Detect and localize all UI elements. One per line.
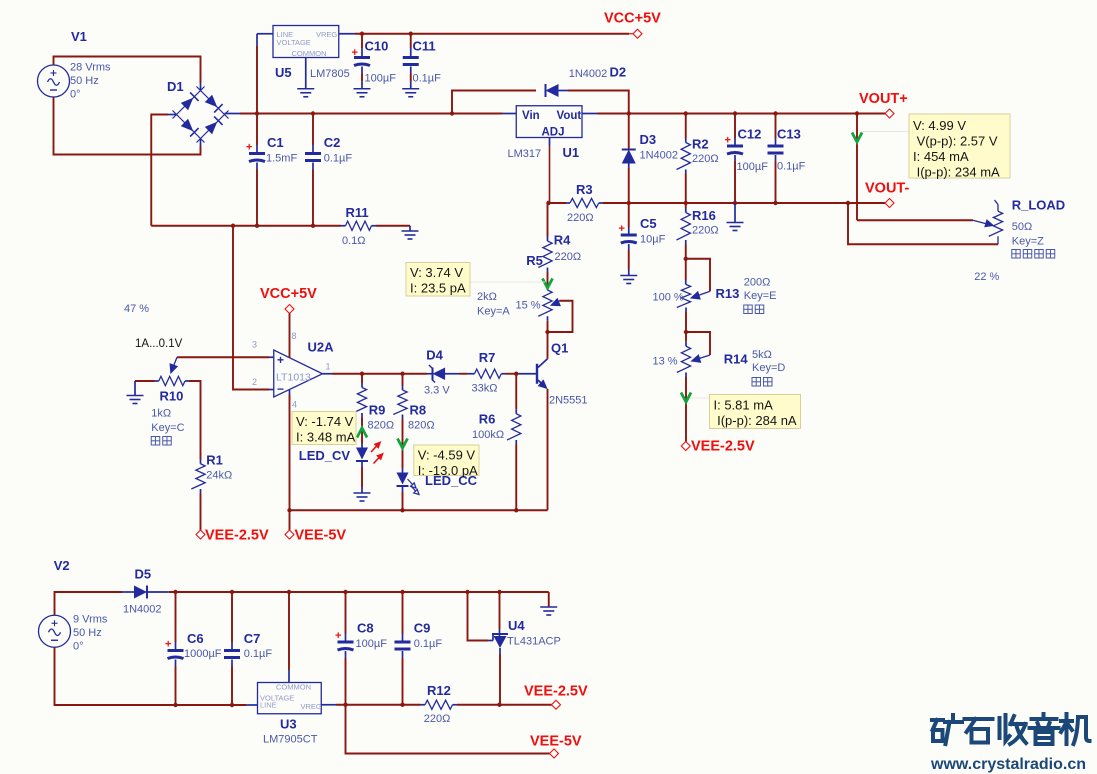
svg-text:U3: U3 (280, 717, 297, 732)
svg-text:V(p-p): 2.57 V: V(p-p): 2.57 V (913, 134, 998, 149)
svg-text:C13: C13 (777, 127, 801, 142)
junction C13 bottom (773, 201, 777, 205)
junction C10 top (360, 32, 364, 36)
svg-text:V: 4.99 V: V: 4.99 V (913, 118, 966, 133)
svg-text:0°: 0° (73, 641, 84, 653)
svg-text:1000µF: 1000µF (184, 648, 222, 660)
svg-text:13 %: 13 % (653, 356, 678, 368)
capacitor C6 (175, 642, 177, 649)
label R10 电流 (151, 437, 160, 446)
svg-text:R12: R12 (427, 683, 451, 698)
net connector VEE-2.5V (R12) (552, 700, 561, 709)
svg-text:R8: R8 (410, 403, 427, 418)
svg-text:V: -4.59 V: V: -4.59 V (418, 448, 476, 463)
svg-text:C7: C7 (244, 631, 261, 646)
svg-text:TL431ACP: TL431ACP (507, 636, 561, 648)
svg-text:VCC+5V: VCC+5V (260, 286, 317, 302)
svg-text:LM7905CT: LM7905CT (263, 734, 318, 746)
svg-text:3.3 V: 3.3 V (424, 385, 450, 397)
callout line to measurement box (861, 131, 909, 133)
svg-text:+: + (725, 135, 731, 147)
junction C8 top (343, 590, 347, 594)
junction C6 top (173, 590, 177, 594)
wire bridge right corner to main rail (225, 113, 241, 115)
junction R9 top (360, 372, 364, 376)
diode bridge D1 (173, 87, 229, 143)
ADJ/VOUT- rail (550, 202, 567, 204)
svg-text:R2: R2 (692, 137, 709, 152)
svg-text:−: − (277, 382, 284, 396)
svg-text:I: -13.0 pA: I: -13.0 pA (418, 463, 478, 478)
svg-text:LM317: LM317 (508, 148, 542, 160)
svg-text:VREG: VREG (316, 30, 337, 39)
ground R11 (409, 226, 411, 231)
junction VOUT+ load branch (855, 111, 859, 115)
resistor R7 (475, 369, 502, 378)
ground LED_CV (354, 493, 371, 501)
junction R8 top (400, 372, 404, 376)
svg-text:50 Hz: 50 Hz (73, 627, 102, 639)
negative rail VEE-5V (290, 509, 548, 511)
svg-text:9 Vrms: 9 Vrms (73, 614, 108, 626)
regulator U1 LM317 box (516, 106, 582, 138)
capacitor C11 (410, 48, 412, 56)
potentiometer R10 (159, 376, 185, 385)
capacitor C2 (312, 145, 314, 152)
junction C12 top (733, 111, 737, 115)
svg-text:2N5551: 2N5551 (549, 395, 588, 407)
svg-text:+: + (277, 353, 284, 367)
junction ADJ R3 R4 (546, 201, 550, 205)
svg-text:2kΩ: 2kΩ (477, 291, 497, 303)
junction bridge rail / U5 / C1 (255, 111, 259, 115)
svg-text:U2A: U2A (308, 340, 335, 355)
svg-text:R7: R7 (479, 350, 496, 365)
svg-text:0°: 0° (70, 89, 81, 101)
svg-text:1.5mF: 1.5mF (266, 153, 297, 165)
svg-text:R3: R3 (576, 182, 593, 197)
resistor R3 (570, 198, 599, 207)
junction R13/R14 (684, 330, 688, 334)
svg-text:VOUT-: VOUT- (865, 181, 909, 197)
capacitor C13 (775, 139, 777, 145)
svg-text:ADJ: ADJ (542, 127, 565, 139)
LED_CV emission arrows (371, 442, 383, 464)
junction U4 ref branch (465, 590, 469, 594)
svg-text:I: 454 mA: I: 454 mA (913, 149, 969, 164)
watermark 矿石收音机 www.crystalradio.cn (932, 714, 1090, 744)
V2 bottom rail (55, 648, 247, 706)
svg-text:3: 3 (252, 340, 257, 350)
svg-text:50Ω: 50Ω (1012, 221, 1032, 233)
capacitor C9 (402, 634, 404, 641)
svg-text:1kΩ: 1kΩ (151, 408, 171, 420)
svg-text:VEE-2.5V: VEE-2.5V (691, 439, 755, 455)
svg-text:VEE-5V: VEE-5V (295, 528, 347, 544)
svg-text:V1: V1 (71, 29, 87, 44)
svg-text:VEE-2.5V: VEE-2.5V (205, 528, 269, 544)
svg-text:U5: U5 (275, 65, 292, 80)
svg-text:Vin: Vin (522, 110, 540, 122)
svg-text:Key=A: Key=A (477, 306, 510, 318)
potentiometer R13 (685, 280, 687, 285)
svg-text:220Ω: 220Ω (692, 225, 719, 237)
svg-text:R4: R4 (554, 233, 571, 248)
wire R10 wiper to op-amp plus input (177, 356, 269, 358)
capacitor C5 (628, 228, 630, 234)
junction D2 branch (450, 111, 454, 115)
svg-text:0.1µF: 0.1µF (777, 161, 806, 173)
svg-text:820Ω: 820Ω (368, 420, 395, 432)
svg-text:R_LOAD: R_LOAD (1012, 198, 1065, 213)
svg-text:1N4002: 1N4002 (640, 150, 679, 162)
resistor R12 (421, 704, 426, 706)
net connector VEE-2.5V (R1) (196, 530, 205, 539)
U3 COMMON pin wire (288, 670, 290, 683)
net connector VOUT- (885, 199, 894, 208)
VEE-5V bottom wire (346, 705, 550, 754)
svg-text:8: 8 (292, 331, 297, 341)
ground V2 rail (540, 607, 557, 615)
junction C8 bottom (400, 703, 404, 707)
svg-text:R9: R9 (369, 403, 386, 418)
svg-text:LED_CV: LED_CV (299, 448, 351, 463)
net connector VEE-5V (285, 530, 294, 539)
ground U5 (297, 89, 314, 97)
lower rail (bridge minus) (151, 225, 341, 227)
junction U4 anode / R12 (497, 703, 501, 707)
resistor R1 (191, 464, 205, 489)
svg-text:220Ω: 220Ω (555, 251, 582, 263)
svg-text:R5: R5 (526, 253, 543, 268)
svg-text:50 Hz: 50 Hz (70, 75, 99, 87)
R10 wiper arrow (172, 357, 177, 369)
svg-text:C2: C2 (324, 135, 341, 150)
junction VEE-5V branch (343, 703, 347, 707)
junction U4 cathode (497, 590, 501, 594)
svg-text:0.1µF: 0.1µF (414, 638, 443, 650)
svg-text:Q1: Q1 (551, 341, 568, 356)
svg-text:COMMON: COMMON (292, 49, 327, 58)
callout line to box (690, 397, 710, 399)
svg-text:10µF: 10µF (640, 234, 666, 246)
junction U3 COMMON (287, 590, 291, 594)
svg-text:+: + (619, 223, 625, 235)
ground C10 (354, 89, 371, 97)
svg-text:COMMON: COMMON (276, 683, 311, 692)
junction D2/D3 (627, 111, 631, 115)
main top rail (bridge output to U1 Vin) (257, 113, 503, 115)
svg-text:LM7805: LM7805 (310, 68, 350, 80)
svg-text:4: 4 (292, 400, 297, 410)
net connector VCC+5V op-amp (285, 305, 294, 314)
measurement box VOUT (909, 114, 1010, 178)
svg-text:200Ω: 200Ω (744, 277, 771, 289)
svg-text:Key=D: Key=D (752, 362, 785, 374)
svg-text:VOLTAGE: VOLTAGE (277, 38, 311, 47)
capacitor C7 (231, 642, 233, 649)
measurement box V3.74 (406, 263, 470, 297)
svg-text:1A...0.1V: 1A...0.1V (135, 338, 183, 350)
svg-text:D1: D1 (167, 79, 184, 94)
AC source V2 (39, 615, 71, 647)
junction R2 top (684, 111, 688, 115)
LED LED_CV (356, 448, 368, 460)
svg-text:28 Vrms: 28 Vrms (70, 62, 111, 74)
svg-text:220Ω: 220Ω (567, 212, 594, 224)
resistor R6 (515, 409, 517, 414)
net connector VEE-2.5V (R14) (681, 442, 690, 451)
svg-text:LT1013: LT1013 (276, 372, 311, 384)
junction C6 bottom (173, 703, 177, 707)
junction C9 top (400, 590, 404, 594)
svg-text:C8: C8 (357, 621, 374, 636)
svg-text:VEE-2.5V: VEE-2.5V (524, 684, 588, 700)
U3 VREG wire (321, 704, 336, 706)
svg-text:R6: R6 (479, 412, 496, 427)
svg-text:2: 2 (252, 377, 257, 387)
svg-text:100µF: 100µF (737, 161, 769, 173)
junction R16/R13 (684, 257, 688, 261)
svg-text:15 %: 15 % (516, 300, 541, 312)
svg-text:1N4002: 1N4002 (123, 604, 162, 616)
svg-text:Key=C: Key=C (151, 422, 184, 434)
wire VOUT- to R_LOAD bottom (848, 203, 998, 244)
junction LED_CC bottom (400, 508, 404, 512)
wire R10 right to R1 (189, 381, 201, 460)
junction VOUT- load branch (846, 201, 850, 205)
junction Q1 base / R6 (514, 372, 518, 376)
svg-text:VCC+5V: VCC+5V (604, 11, 661, 27)
U5 COMMON pin to ground (305, 58, 307, 89)
ground C11 (402, 89, 419, 97)
diode D2 1N4002 (452, 91, 536, 114)
op-amp pin 8 wire (289, 314, 291, 358)
svg-text:1: 1 (326, 362, 331, 372)
junction C1 bottom (255, 224, 259, 228)
net connector VOUT+ (885, 109, 894, 118)
ground C5 (620, 276, 637, 284)
junction C11 top (409, 32, 413, 36)
svg-text:0.1µF: 0.1µF (244, 648, 273, 660)
wire U5 VREG to VCC+5V (339, 33, 355, 35)
svg-text:C12: C12 (738, 127, 762, 142)
svg-text:R16: R16 (692, 208, 716, 223)
svg-text:100µF: 100µF (365, 73, 397, 85)
svg-text:I: 3.48 mA: I: 3.48 mA (296, 430, 356, 445)
svg-text:C10: C10 (365, 39, 389, 54)
measurement box I 5.81mA (710, 395, 801, 429)
diode D3 1N4002 (628, 114, 630, 149)
label R13 细调 (744, 305, 753, 314)
transistor Q1 2N5551 (547, 332, 549, 359)
svg-text:V: 3.74 V: V: 3.74 V (410, 265, 463, 280)
svg-text:VEE-5V: VEE-5V (530, 734, 582, 750)
U4 reference wire (468, 592, 489, 641)
junction C7 top (230, 590, 234, 594)
wire U1 Vout to VOUT+ rail (582, 113, 598, 115)
junction R16 top (684, 201, 688, 205)
svg-text:R10: R10 (160, 389, 184, 404)
zener diode D4 (433, 367, 446, 380)
svg-text:VOUT+: VOUT+ (859, 91, 908, 107)
capacitor C10 (361, 48, 363, 56)
potentiometer R_LOAD (995, 200, 999, 205)
junction C5 top (627, 201, 631, 205)
potentiometer R14 (685, 342, 687, 347)
svg-text:+: + (335, 630, 341, 642)
junction C7 bottom (230, 703, 234, 707)
svg-text:D5: D5 (135, 567, 152, 582)
op-amp output wire (323, 373, 333, 375)
svg-text:D3: D3 (640, 132, 657, 147)
junction C12 bottom / ground (733, 201, 737, 205)
svg-text:D2: D2 (610, 65, 627, 80)
ground at C12/C13 rail (734, 203, 736, 223)
ground R10 (127, 396, 144, 404)
voltage regulator U5 box (273, 26, 339, 58)
wire V1 bottom to bridge bottom (54, 97, 201, 155)
op-amp pin 4 wire to VEE-5V (289, 390, 291, 395)
svg-text:0.1Ω: 0.1Ω (342, 235, 366, 247)
svg-text:+: + (246, 142, 252, 154)
svg-text:I(p-p): 284 nA: I(p-p): 284 nA (714, 413, 797, 428)
capacitor C8 (345, 634, 347, 641)
junction VCC sense branch (231, 224, 235, 228)
label R14 粗调 (752, 378, 761, 387)
svg-text:+: + (352, 47, 358, 59)
green probe arrow VOUT+ (856, 114, 858, 221)
svg-text:U1: U1 (563, 145, 580, 160)
svg-text:47 %: 47 % (124, 303, 149, 315)
R5 wiper arrow (554, 301, 560, 304)
R13 wiper arrow (694, 291, 710, 297)
capacitor C12 (734, 139, 736, 145)
svg-text:Key=E: Key=E (744, 290, 777, 302)
wire bridge left corner down to lower rail (168, 114, 177, 116)
svg-text:R11: R11 (346, 205, 369, 220)
svg-text:C9: C9 (414, 621, 431, 636)
Q1 base wire (516, 373, 536, 375)
wire minus rail sense (233, 226, 269, 390)
LED_CC emission arrows (408, 479, 420, 495)
junction C2 bottom (311, 224, 315, 228)
wire VOUT+ to R_LOAD wiper (857, 219, 973, 221)
diode D5 (134, 586, 147, 599)
svg-text:V: -1.74 V: V: -1.74 V (296, 414, 354, 429)
net connector VCC+5V (top) (633, 29, 642, 38)
R14 wiper arrow (695, 355, 711, 360)
potentiometer R5 (538, 290, 552, 316)
svg-text:1N4002: 1N4002 (569, 68, 608, 80)
resistor R16 (685, 208, 687, 213)
svg-text:R14: R14 (724, 352, 749, 367)
junction C2 (311, 111, 315, 115)
svg-text:+: + (165, 639, 171, 651)
R13 rheostat loop wire (686, 259, 710, 292)
wire V1 top to bridge top (54, 57, 201, 84)
svg-text:R13: R13 (716, 286, 740, 301)
R_LOAD wiper arrow (973, 220, 988, 224)
regulator U3 LM7905CT box (258, 683, 322, 714)
shunt reference U4 TL431ACP (499, 592, 501, 629)
green probe arrow LED_CC (402, 440, 404, 468)
svg-text:LINE: LINE (260, 701, 277, 710)
svg-text:220Ω: 220Ω (424, 713, 451, 725)
svg-text:I: 23.5 pA: I: 23.5 pA (410, 281, 466, 296)
LED LED_CC (397, 473, 409, 485)
junction R5/Q1 collector (545, 330, 549, 334)
op-amp U2A LT1013 (274, 350, 323, 397)
junction pin4 rail (287, 508, 291, 512)
svg-text:I(p-p): 234 mA: I(p-p): 234 mA (913, 165, 1000, 180)
svg-text:100kΩ: 100kΩ (472, 429, 504, 441)
measurement box V-1.74 (292, 412, 356, 445)
svg-text:5kΩ: 5kΩ (752, 349, 772, 361)
wire V2 top to D5 (55, 592, 123, 615)
V2 top rail (169, 591, 549, 593)
label R_LOAD 模拟负载 (1012, 250, 1021, 259)
R5 rheostat loop wire (548, 301, 573, 332)
resistor R8 (402, 386, 404, 391)
svg-text:C1: C1 (267, 135, 284, 150)
svg-text:24kΩ: 24kΩ (206, 470, 232, 482)
svg-text:0.1µF: 0.1µF (324, 153, 353, 165)
svg-text:R1: R1 (206, 453, 223, 468)
svg-text:22 %: 22 % (974, 271, 999, 283)
svg-text:0.1µF: 0.1µF (413, 73, 442, 85)
svg-text:Key=Z: Key=Z (1012, 236, 1044, 248)
net connector VEE-5V (bottom) (550, 749, 559, 758)
svg-text:Vout: Vout (557, 110, 582, 122)
svg-text:C5: C5 (640, 216, 657, 231)
svg-text:100µF: 100µF (356, 638, 388, 650)
wire U5 LINE branch (256, 46, 258, 114)
junction R6 bottom (514, 508, 518, 512)
svg-text:820Ω: 820Ω (408, 420, 435, 432)
green probe arrow R5 (543, 279, 553, 289)
callout line to box V3.74 (470, 281, 545, 283)
wire R10 left to ground (155, 380, 159, 382)
svg-text:220Ω: 220Ω (692, 153, 719, 165)
svg-text:C11: C11 (413, 39, 436, 54)
svg-text:C6: C6 (187, 631, 204, 646)
svg-text:100 %: 100 % (653, 292, 684, 304)
svg-text:I: 5.81 mA: I: 5.81 mA (714, 398, 774, 413)
green probe arrow LED_CV (361, 428, 363, 444)
svg-text:VREG: VREG (301, 702, 322, 711)
svg-text:V2: V2 (54, 558, 70, 573)
AC source V1 (38, 65, 70, 97)
junction C13 top (773, 111, 777, 115)
wire rail to ground (548, 592, 550, 607)
capacitor C1 (256, 145, 258, 152)
resistor R4 (547, 237, 549, 242)
svg-text:33kΩ: 33kΩ (472, 383, 498, 395)
green probe arrow R14 current (681, 393, 691, 403)
R14 rheostat loop wire (686, 332, 710, 355)
resistor R2 (685, 138, 687, 143)
svg-text:D4: D4 (426, 348, 443, 363)
resistor R11 (346, 221, 372, 230)
measurement box V-4.59 (414, 445, 479, 476)
wire U1 ADJ down (549, 138, 551, 147)
resistor R9 (361, 383, 363, 388)
svg-text:www.crystalradio.cn: www.crystalradio.cn (930, 756, 1086, 773)
svg-text:U4: U4 (508, 618, 525, 633)
